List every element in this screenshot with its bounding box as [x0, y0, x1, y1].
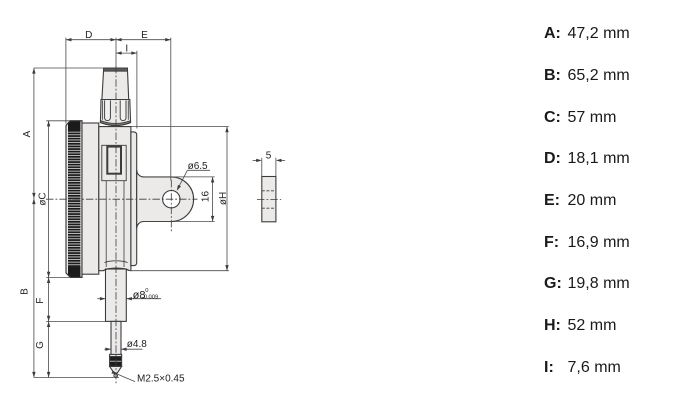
svg-text:-0.009: -0.009 [142, 295, 158, 301]
svg-text:E: E [141, 30, 148, 41]
svg-text:G: G [35, 341, 46, 349]
svg-text:16: 16 [201, 191, 212, 203]
svg-text:ø4.8: ø4.8 [127, 339, 147, 350]
svg-text:0: 0 [145, 288, 148, 294]
svg-text:øC: øC [38, 192, 49, 205]
svg-text:F: F [35, 298, 46, 304]
svg-text:ø6.5: ø6.5 [188, 161, 208, 172]
svg-text:I: I [125, 43, 128, 54]
svg-text:M2.5×0.45: M2.5×0.45 [137, 373, 185, 384]
svg-text:A: A [22, 130, 33, 137]
svg-text:D: D [85, 30, 92, 41]
svg-text:5: 5 [266, 151, 272, 162]
svg-text:B: B [20, 288, 31, 295]
svg-text:øH: øH [218, 192, 229, 205]
